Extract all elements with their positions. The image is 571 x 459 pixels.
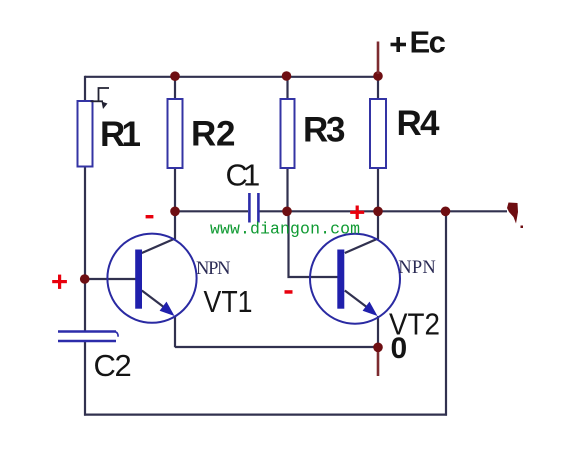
svg-text:C1: C1 [226, 157, 261, 192]
svg-text:VT1: VT1 [204, 284, 253, 319]
svg-text:R4: R4 [397, 104, 441, 143]
svg-text:www.diangon.com: www.diangon.com [210, 220, 360, 239]
svg-text:R2: R2 [191, 115, 235, 154]
svg-text:C2: C2 [94, 348, 132, 383]
svg-text:R3: R3 [303, 111, 345, 150]
svg-text:Ec: Ec [410, 25, 446, 60]
svg-text:R1: R1 [100, 115, 141, 154]
svg-text:0: 0 [391, 332, 408, 365]
svg-text:NPN: NPN [196, 259, 231, 279]
svg-text:NPN: NPN [398, 258, 436, 278]
